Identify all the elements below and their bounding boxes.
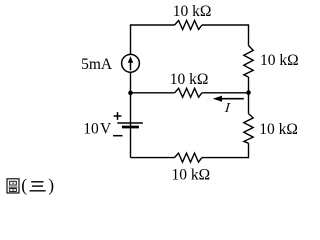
current arrow I (pointing left) <box>213 96 244 102</box>
wire bottom-right corner (R4 to R5 bottom) <box>202 143 249 157</box>
wire middle-left (node A to R3) <box>131 92 175 94</box>
wire node B to R5 top <box>248 93 250 114</box>
svg-text:): ) <box>48 175 54 195</box>
resistor R3 middle 10kΩ <box>175 88 202 97</box>
svg-text:(: ( <box>21 175 27 195</box>
resistor R1 top 10kΩ <box>175 21 202 30</box>
node A (left middle junction dot) <box>128 91 133 96</box>
wire current source bottom to node A <box>130 72 132 93</box>
node B (right middle junction dot) <box>246 90 251 95</box>
svg-text:5mA: 5mA <box>81 56 113 73</box>
wire left lower rail (node A through battery to bottom-left corner) <box>130 93 132 158</box>
svg-text:10 kΩ: 10 kΩ <box>172 167 211 184</box>
figure caption 圖(三) <box>7 175 54 195</box>
wire top-right corner (R1 right to R2 top) <box>202 25 249 45</box>
resistor R5 lower-right 10kΩ <box>244 114 253 144</box>
svg-text:I: I <box>223 100 232 115</box>
label battery minus sign <box>113 135 122 137</box>
svg-text:10 kΩ: 10 kΩ <box>170 71 209 88</box>
svg-text:10 kΩ: 10 kΩ <box>260 52 299 69</box>
wire R2 bottom to node B <box>248 77 250 93</box>
wire middle-right (R3 to node B) <box>202 92 249 94</box>
resistor R2 upper-right 10kΩ <box>244 45 253 77</box>
wire top-left L (current source top to R1 left) <box>131 25 175 54</box>
resistor R4 bottom 10kΩ <box>175 153 202 162</box>
label battery plus sign <box>114 112 122 120</box>
wire bottom-left (corner to R4) <box>131 157 175 159</box>
svg-text:10 V: 10 V <box>83 121 112 138</box>
battery V1 (short thick plate) <box>122 126 139 129</box>
svg-text:10 kΩ: 10 kΩ <box>173 3 212 20</box>
caption glyph 圖 <box>7 179 19 193</box>
svg-text:10 kΩ: 10 kΩ <box>259 121 298 138</box>
caption glyph 三 <box>30 182 46 191</box>
battery V1 (long plate) <box>117 122 143 124</box>
current source I1 5mA (circle with up arrow) <box>122 54 140 72</box>
